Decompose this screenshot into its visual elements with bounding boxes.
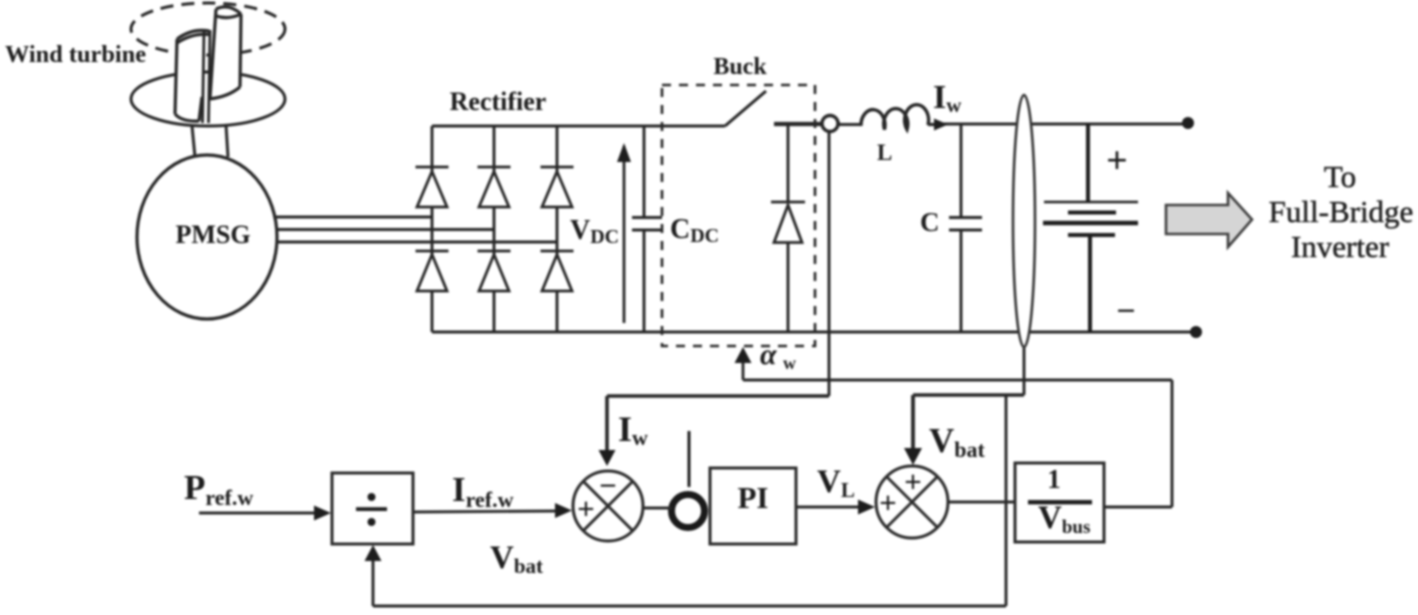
svg-text:+: + xyxy=(904,464,922,499)
svg-text:L: L xyxy=(877,140,892,165)
svg-text:+: + xyxy=(577,491,595,526)
svg-text:Rectifier: Rectifier xyxy=(450,87,547,116)
svg-text:w: w xyxy=(783,353,796,373)
svg-text:To: To xyxy=(1324,159,1356,194)
svg-text:Inverter: Inverter xyxy=(1291,229,1390,264)
svg-text:PMSG: PMSG xyxy=(175,220,250,249)
svg-text:−: − xyxy=(599,468,617,503)
svg-text:1: 1 xyxy=(1047,464,1061,494)
svg-text:PI: PI xyxy=(738,480,769,515)
svg-text:−: − xyxy=(1116,293,1135,330)
svg-text:Wind turbine: Wind turbine xyxy=(5,42,146,68)
svg-text:α: α xyxy=(760,338,777,371)
svg-text:+: + xyxy=(879,485,897,520)
svg-text:Buck: Buck xyxy=(713,54,767,80)
svg-text:C: C xyxy=(920,207,940,237)
svg-text:Full-Bridge: Full-Bridge xyxy=(1269,194,1414,229)
svg-text:+: + xyxy=(1106,140,1128,182)
